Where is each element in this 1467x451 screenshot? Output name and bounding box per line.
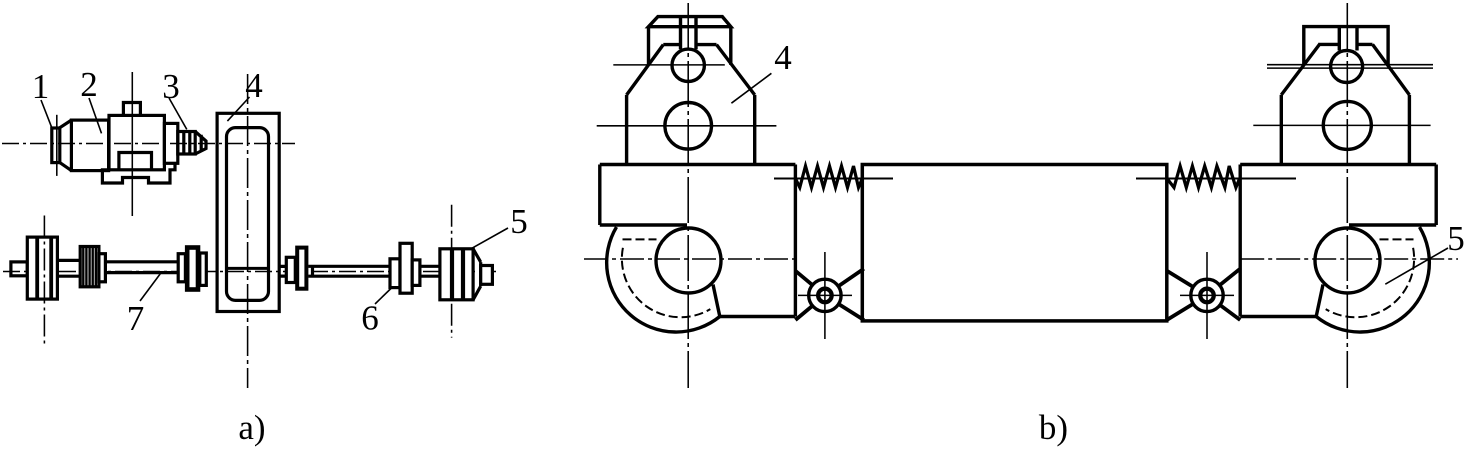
wheel inner walls <box>37 237 51 299</box>
part 5 inner walls <box>452 249 463 300</box>
part 5 block <box>440 249 473 300</box>
figure b: right tie-rod end <box>1240 3 1458 388</box>
left knuckle vertical centerline <box>687 3 689 388</box>
svg-text:7: 7 <box>127 299 145 338</box>
left bolt horizontal centerline <box>798 294 852 296</box>
svg-text:1: 1 <box>32 67 50 106</box>
lower horizontal centerline <box>3 271 500 273</box>
cone between cap and cylinder <box>60 120 72 171</box>
leader 3 <box>169 98 187 129</box>
small boss on top of block <box>123 103 140 116</box>
right shank line <box>1136 178 1296 180</box>
right spring (thread symbol) <box>1167 166 1240 188</box>
part 6 tall flange <box>400 243 412 293</box>
step collar (base of part 3) <box>164 123 177 163</box>
svg-text:5: 5 <box>1447 219 1465 258</box>
clamp slot <box>681 17 697 50</box>
leader lines for labels <box>41 73 1448 304</box>
left flange cluster: right washer <box>200 253 207 285</box>
svg-text:6: 6 <box>361 299 379 338</box>
housing left edge <box>598 165 601 226</box>
double centerline through bolt hole <box>1267 65 1433 68</box>
figure a: shaft-and-coupling assembly, top row <box>2 72 295 216</box>
wheel vertical centerline <box>43 216 45 345</box>
threaded section (part 3) <box>178 132 195 155</box>
rod chord visible in slot <box>227 267 269 270</box>
small bolt hole <box>1331 51 1363 83</box>
centerline through middle hole <box>1253 124 1430 126</box>
part 6 washer <box>390 259 400 288</box>
housing right edge <box>1434 165 1437 226</box>
svg-text:3: 3 <box>162 67 180 106</box>
part 5 vertical centerline <box>451 205 453 338</box>
figure b: middle tube and adjusting joints <box>774 165 1296 340</box>
plate outer rectangle <box>217 113 279 311</box>
housing right edge <box>794 165 797 317</box>
ball horizontal centerline <box>1240 258 1458 260</box>
centerline through bolt hole <box>613 64 725 66</box>
long rod to part 5 <box>308 266 440 276</box>
clamp top face (3D) <box>649 17 731 27</box>
figure b: left tie-rod end <box>584 3 795 388</box>
inner notch of block <box>119 153 152 170</box>
left clamp bolt outer circle <box>809 279 841 311</box>
cylinder (part 2) <box>71 120 108 171</box>
middle hole <box>665 103 712 150</box>
stub right of plate <box>279 266 286 276</box>
leader 1 <box>41 100 52 128</box>
small bolt hole <box>672 49 704 81</box>
ball boss outer arc <box>1316 227 1429 332</box>
body side walls <box>627 95 755 165</box>
hidden line socket top <box>623 238 657 240</box>
mounting foot below block <box>102 163 175 183</box>
clamp shoulders <box>1318 43 1372 46</box>
housing bottom edge <box>1240 315 1316 318</box>
housing bottom edge <box>720 315 796 318</box>
housing inner shelf line <box>1349 223 1436 226</box>
leader 5a <box>471 228 508 249</box>
shaft wheel-to-thread <box>57 260 80 276</box>
body slant edges <box>627 45 755 95</box>
leader 6 <box>375 287 393 305</box>
figure a: slotted link plate (part 4) <box>217 74 279 388</box>
leader 4a <box>227 97 249 121</box>
threaded block (near 7) <box>80 247 99 287</box>
boss corner line <box>713 285 720 317</box>
hidden dashed boss arc <box>622 248 710 317</box>
housing left edge <box>1238 165 1241 317</box>
part 6 collar <box>412 260 420 286</box>
part 5 cone <box>473 249 481 300</box>
clamp shoulders <box>663 43 716 46</box>
left stub shaft <box>11 262 27 276</box>
body side walls <box>1281 95 1409 165</box>
right clamp cone lines <box>1167 269 1240 320</box>
right tall flange B <box>297 248 306 289</box>
right bolt vertical centerline <box>1206 252 1208 339</box>
right washer A <box>286 257 295 282</box>
ball boss outer arc <box>607 227 720 332</box>
cap (part 1) <box>52 128 60 163</box>
leader 5b <box>1385 248 1448 284</box>
clamp rectangle <box>1304 27 1388 66</box>
ball circle <box>1315 228 1380 293</box>
clamp side walls <box>649 27 731 65</box>
body slant edges <box>1281 44 1409 95</box>
left clamp bolt inner circle <box>818 289 832 303</box>
middle hole <box>1323 101 1371 149</box>
plate vertical centerline <box>247 74 249 388</box>
vertical centerline of block <box>131 72 133 216</box>
right clamp bolt outer circle <box>1191 279 1223 311</box>
left flange cluster: tall flange <box>187 248 198 290</box>
svg-text:4: 4 <box>245 66 263 105</box>
right clamp bolt inner circle <box>1200 289 1214 303</box>
collar right of threaded block <box>99 254 106 282</box>
leader 2 <box>89 98 102 133</box>
flanged wheel <box>27 237 57 299</box>
horizontal centerline of top assembly <box>2 143 295 145</box>
thread lines <box>184 132 190 155</box>
left spring (thread symbol) <box>795 166 862 188</box>
thread cone tip <box>195 132 206 155</box>
housing top edge <box>1240 163 1436 166</box>
right bolt horizontal centerline <box>1180 294 1234 296</box>
vertical centerline of cap 1 <box>56 115 58 176</box>
left clamp cone lines <box>795 269 864 320</box>
left flange cluster: washer <box>178 254 185 282</box>
svg-text:5: 5 <box>510 202 528 241</box>
svg-text:4: 4 <box>774 38 792 77</box>
plate slot (rounded) <box>227 128 269 301</box>
leader 4b <box>731 73 771 103</box>
long thin rod (part 7) <box>105 262 178 273</box>
center tube <box>862 165 1167 321</box>
hidden line socket top <box>1380 238 1414 240</box>
left bolt vertical centerline <box>824 252 826 339</box>
part 5 end stub <box>481 266 493 285</box>
leader 7 <box>140 274 160 301</box>
svg-text:b): b) <box>1039 408 1068 447</box>
hidden dashed boss arc <box>1326 248 1414 317</box>
housing top edge <box>600 163 796 166</box>
boss corner line <box>1316 285 1323 317</box>
ball horizontal centerline <box>584 258 795 260</box>
figure a: lower linkage row <box>3 205 500 344</box>
centerline through middle hole <box>597 125 777 127</box>
housing inner shelf line <box>600 223 687 226</box>
right knuckle vertical centerline <box>1346 3 1348 388</box>
svg-text:a): a) <box>238 408 265 447</box>
thread stripes <box>83 247 96 287</box>
main block body <box>109 115 164 169</box>
clamp slot <box>1339 27 1357 51</box>
left shank line <box>774 178 893 180</box>
svg-text:2: 2 <box>80 65 98 104</box>
ball circle <box>656 228 721 293</box>
